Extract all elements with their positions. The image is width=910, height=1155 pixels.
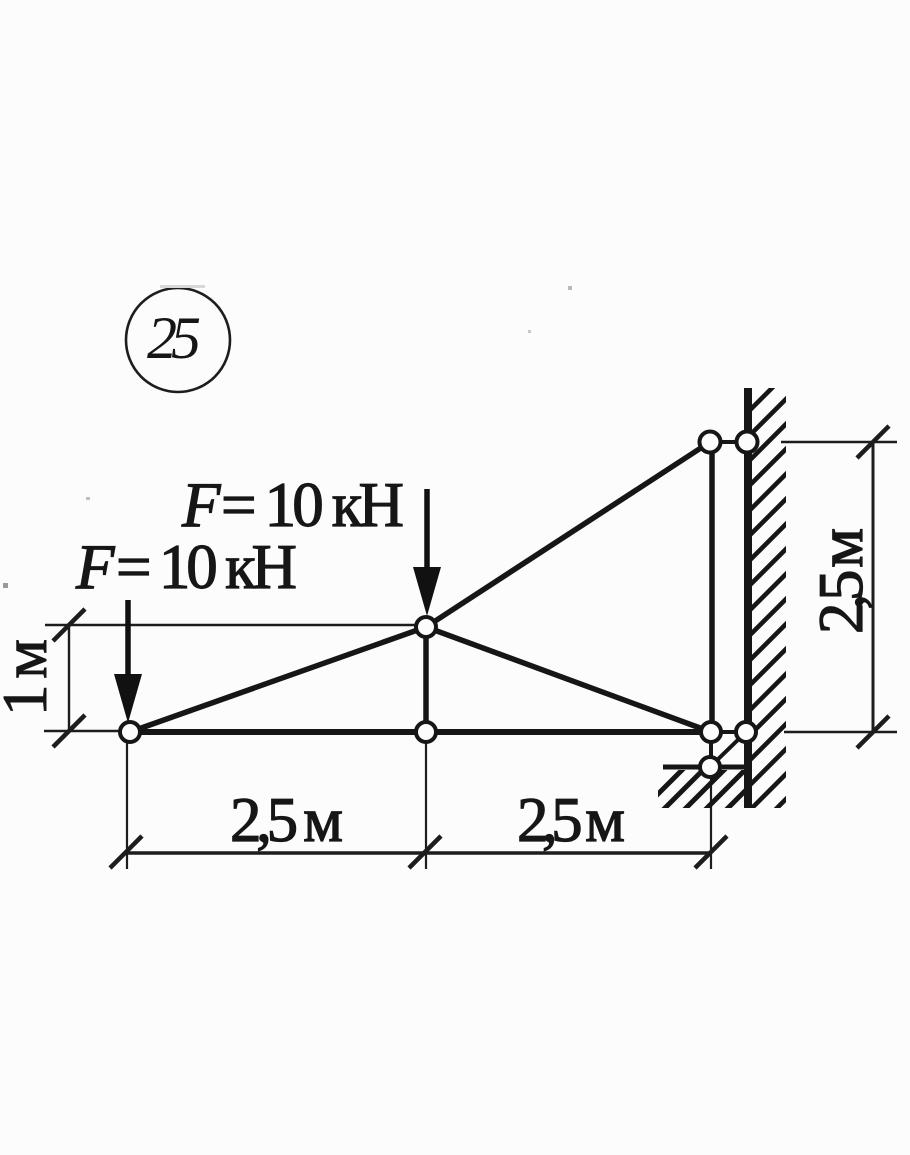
link D to wall node (710, 440, 747, 444)
extension line at bottom-chord level (1 m dimension, bottom) (44, 730, 128, 732)
tick at top of 1 m dimension (53, 609, 85, 641)
scan speck 5 (528, 330, 531, 333)
force label F = 10 kN (lower) (75, 532, 297, 602)
node C (416, 722, 436, 742)
force arrow at node B (413, 489, 441, 616)
svg-text:F: F (75, 532, 115, 602)
svg-text:25: 25 (147, 305, 201, 371)
wall node bottom (736, 722, 756, 742)
bottom dimension line (126, 851, 711, 854)
dimension line 1 m (vertical, left) (68, 625, 70, 731)
extension line right dimension, top (781, 441, 897, 443)
force label F = 10 kN (upper) (181, 470, 404, 540)
extension line below support node (710, 776, 712, 869)
support node (700, 757, 720, 777)
scan speck 4 (86, 497, 90, 500)
link E to support node (709, 732, 713, 767)
member BE diagonal (426, 627, 711, 732)
svg-text:F: F (181, 470, 221, 540)
support hatching (640, 768, 768, 812)
support base line (663, 765, 748, 770)
member AE bottom chord (130, 729, 711, 735)
node D (700, 432, 721, 453)
wall face line (744, 388, 752, 808)
member DE vertical (709, 442, 715, 732)
tick at bottom of right dimension (857, 716, 889, 748)
extension line below node C (425, 741, 427, 869)
member AB (130, 627, 426, 732)
svg-text:1 м: 1 м (0, 639, 60, 716)
member BC vertical (423, 627, 429, 732)
svg-text:2,5 м: 2,5 м (230, 785, 343, 855)
svg-text:2,5 м: 2,5 м (806, 528, 876, 634)
tick at bottom of 1 m dimension (53, 715, 85, 747)
svg-text:= 10 кН: = 10 кН (116, 532, 297, 602)
wall hatching (748, 372, 788, 837)
scan speck 2 (568, 286, 572, 290)
extension line below node A (126, 741, 128, 869)
extension line at middle-node level (1 m dimension, top) (45, 624, 426, 626)
extension line right dimension, bottom (784, 731, 897, 733)
dimension line 2,5 m (vertical, right) (872, 442, 875, 732)
tick at middle of bottom dimension (409, 836, 441, 868)
member BD (426, 442, 710, 627)
wall node top (737, 432, 758, 453)
scan speck 3 (3, 583, 8, 588)
link E to wall node (711, 730, 746, 734)
node B (416, 617, 436, 637)
node A (120, 722, 140, 742)
tick at left end of bottom dimension (110, 836, 142, 868)
tick at top of right dimension (857, 426, 889, 458)
svg-text:2,5 м: 2,5 м (517, 785, 625, 855)
figure number circle 25 (126, 288, 230, 392)
link support node to wall node (711, 733, 745, 766)
node E (701, 722, 721, 742)
svg-text:= 10 кН: = 10 кН (221, 470, 404, 540)
tick at right end of bottom dimension (695, 836, 727, 868)
scan speck 1 (160, 285, 205, 288)
force arrow at node A (114, 600, 142, 723)
